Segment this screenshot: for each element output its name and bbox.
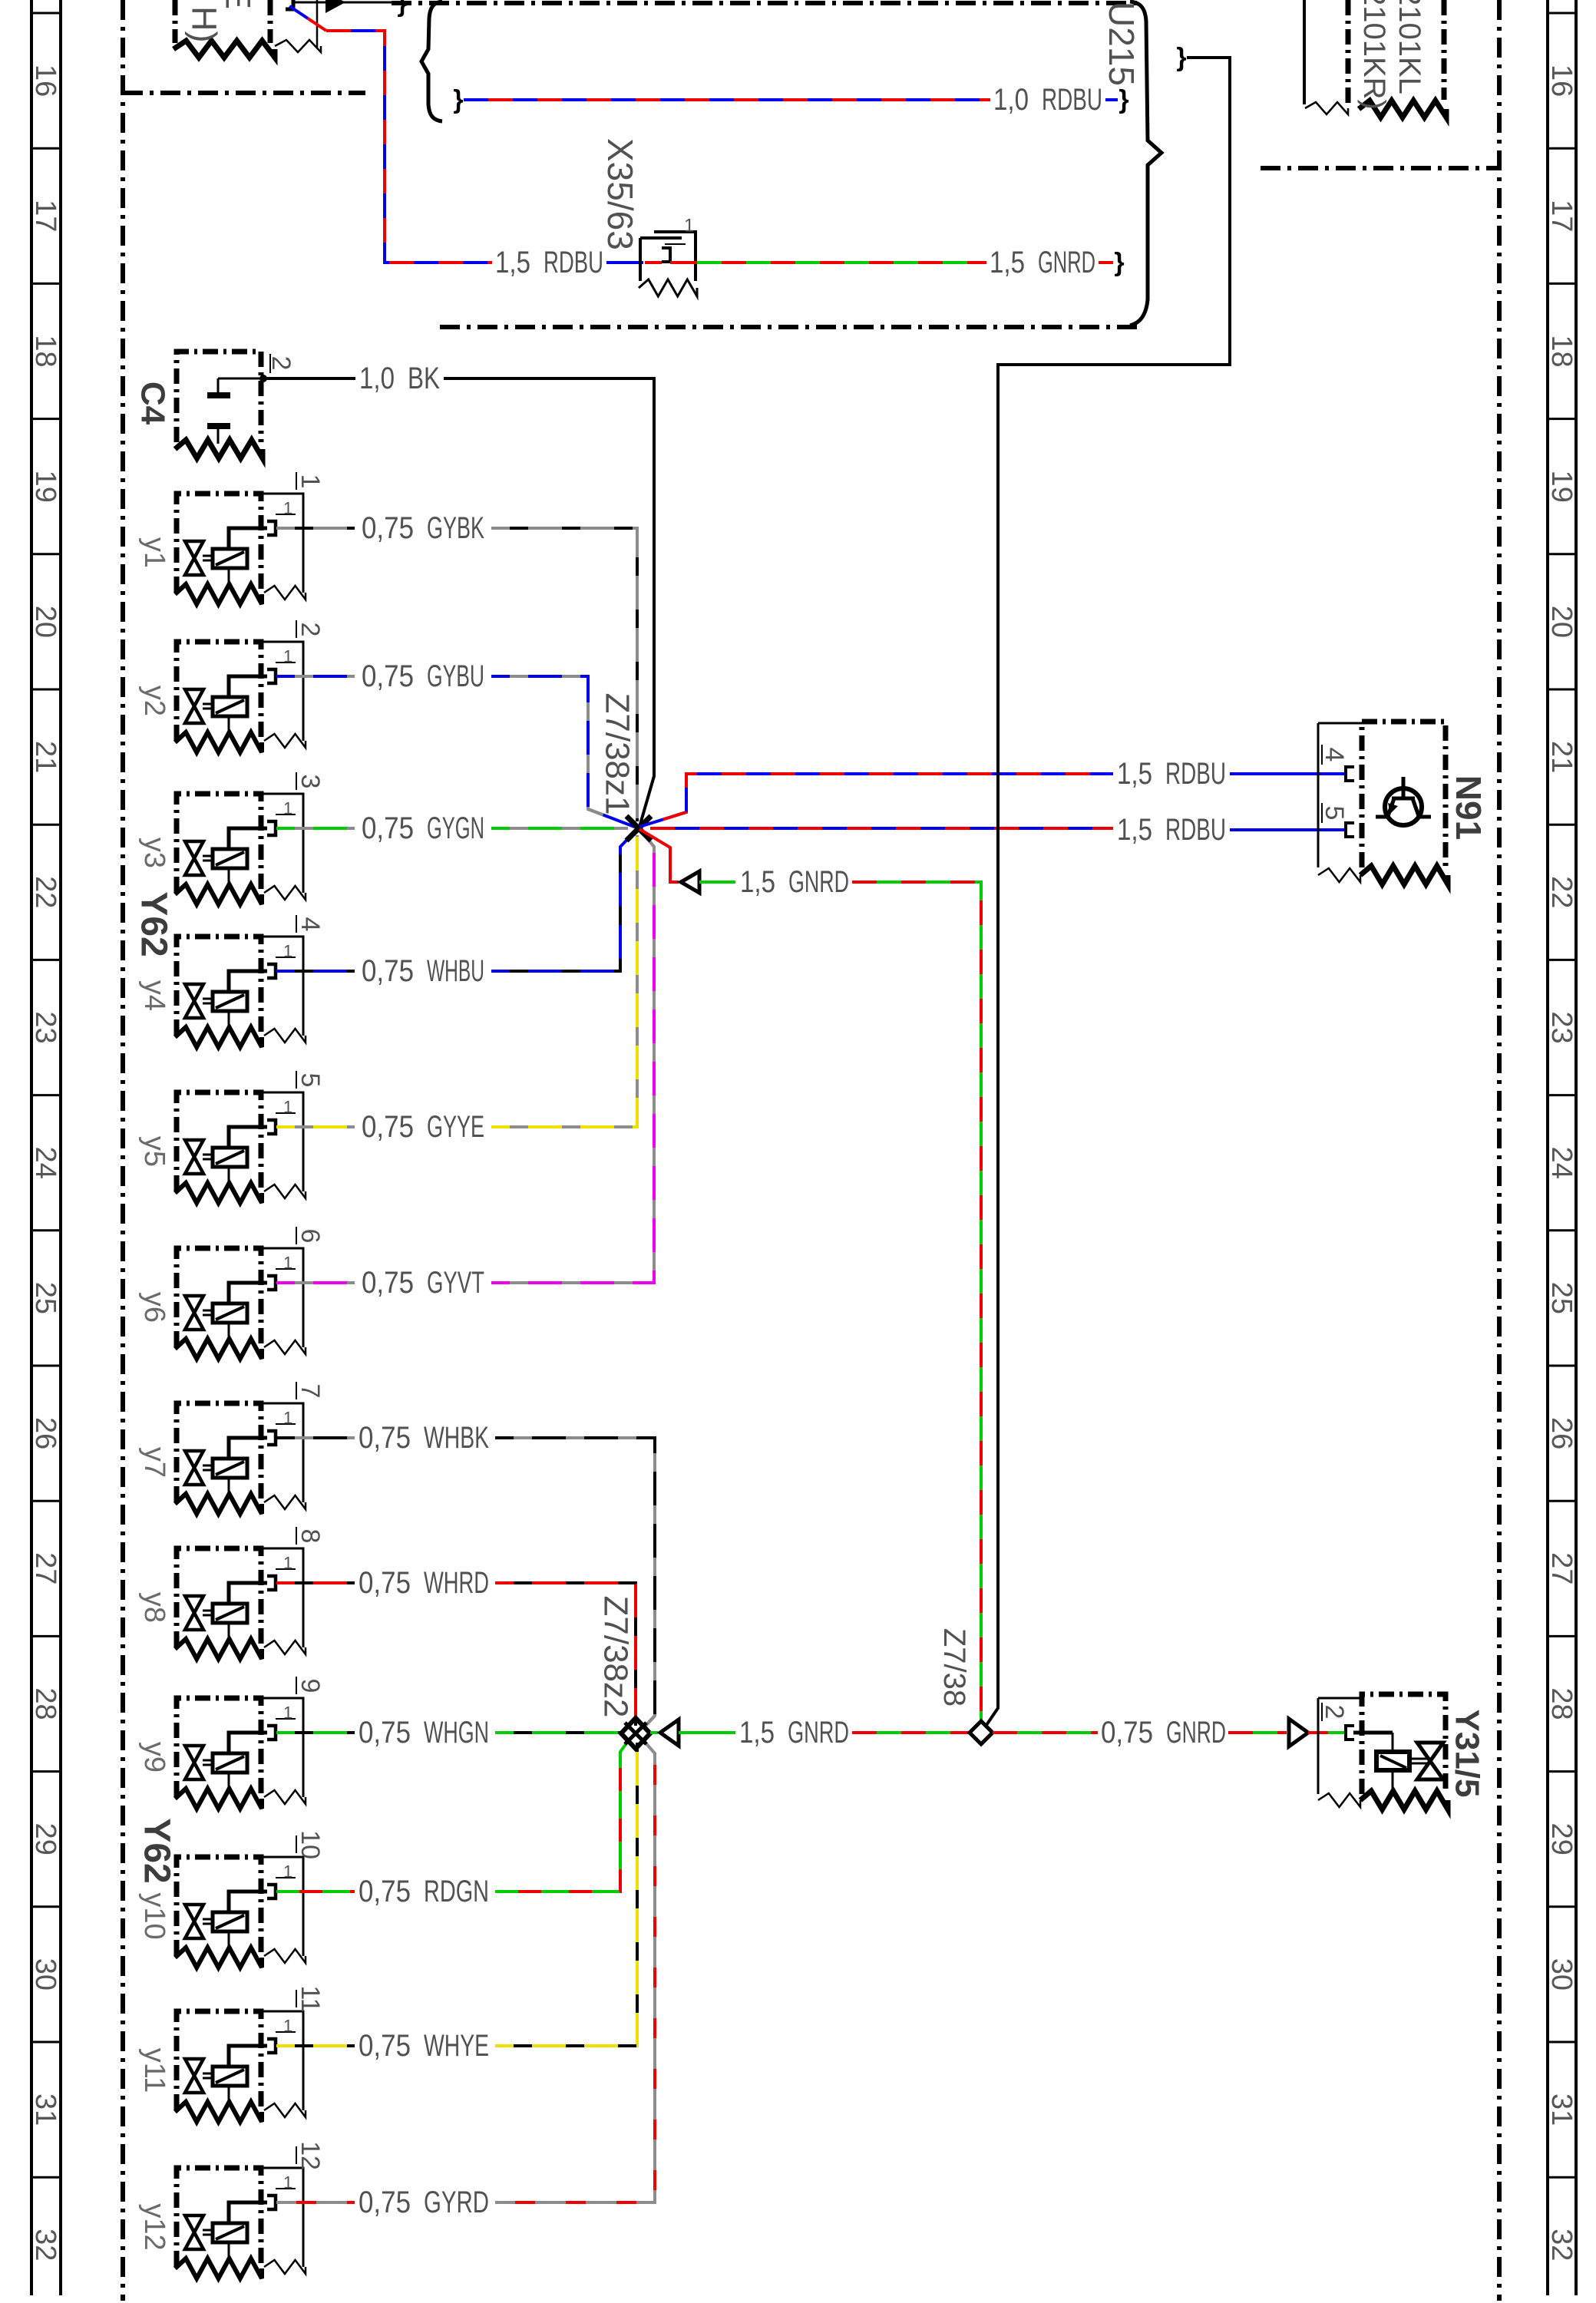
svg-text:U215: U215 bbox=[1102, 2, 1142, 86]
svg-text:1: 1 bbox=[296, 474, 325, 489]
svg-text:0,75: 0,75 bbox=[362, 1110, 414, 1144]
svg-text:21: 21 bbox=[29, 741, 61, 773]
svg-text:y6: y6 bbox=[138, 1292, 170, 1323]
svg-text:0,75: 0,75 bbox=[362, 811, 414, 845]
svg-text:17: 17 bbox=[1545, 200, 1578, 232]
svg-text:5: 5 bbox=[1320, 806, 1349, 821]
svg-text:GNRD: GNRD bbox=[788, 1716, 849, 1750]
svg-text:GYVT: GYVT bbox=[427, 1266, 484, 1300]
svg-text:24: 24 bbox=[1545, 1147, 1578, 1179]
svg-text:16: 16 bbox=[1545, 64, 1578, 97]
svg-text:2: 2 bbox=[1320, 1705, 1349, 1720]
svg-text:2: 2 bbox=[266, 356, 296, 371]
svg-text:23: 23 bbox=[1545, 1011, 1578, 1043]
svg-text:5: 5 bbox=[296, 1073, 325, 1088]
svg-text:6: 6 bbox=[296, 1229, 325, 1244]
svg-text:E: E bbox=[219, 0, 258, 9]
svg-text:RDBU: RDBU bbox=[544, 246, 603, 279]
svg-text:2101KR): 2101KR) bbox=[1357, 0, 1391, 110]
svg-text:Z7/38z1: Z7/38z1 bbox=[599, 693, 636, 815]
svg-text:0,75: 0,75 bbox=[362, 954, 414, 988]
svg-text:9: 9 bbox=[296, 1679, 325, 1693]
svg-text:0,75: 0,75 bbox=[362, 1266, 414, 1300]
svg-text:y2: y2 bbox=[138, 686, 170, 716]
svg-text:0,75: 0,75 bbox=[1101, 1716, 1153, 1750]
svg-text:1,5: 1,5 bbox=[1117, 813, 1152, 847]
svg-text:0,75: 0,75 bbox=[359, 2186, 411, 2219]
svg-text:GYBU: GYBU bbox=[427, 659, 484, 693]
svg-text:31: 31 bbox=[1545, 2093, 1578, 2126]
svg-text:3: 3 bbox=[296, 775, 325, 789]
svg-text:Y31/5: Y31/5 bbox=[1449, 1710, 1486, 1798]
svg-text:N91: N91 bbox=[1449, 775, 1489, 840]
svg-text:GYRD: GYRD bbox=[424, 2186, 489, 2219]
svg-text:29: 29 bbox=[1545, 1823, 1578, 1855]
svg-text:1,0: 1,0 bbox=[993, 83, 1029, 117]
svg-text:32: 32 bbox=[29, 2229, 61, 2261]
svg-text:30: 30 bbox=[1545, 1958, 1578, 1991]
svg-text:4: 4 bbox=[1320, 748, 1349, 762]
svg-text:}: } bbox=[453, 85, 463, 114]
svg-text:4: 4 bbox=[296, 917, 325, 932]
svg-text:}: } bbox=[1176, 43, 1186, 72]
svg-text:y8: y8 bbox=[138, 1592, 170, 1623]
svg-text:RDBU: RDBU bbox=[1165, 813, 1226, 847]
svg-text:0,75: 0,75 bbox=[359, 1716, 411, 1750]
svg-text:11: 11 bbox=[296, 1985, 325, 2012]
svg-text:RDGN: RDGN bbox=[424, 1875, 489, 1908]
svg-text:GNRD: GNRD bbox=[1038, 246, 1095, 279]
svg-text:C4: C4 bbox=[134, 382, 172, 425]
svg-text:RDBU: RDBU bbox=[1042, 83, 1102, 117]
svg-text:2101KL: 2101KL bbox=[1393, 0, 1426, 94]
svg-text:X35/63: X35/63 bbox=[600, 138, 640, 250]
svg-text:BK: BK bbox=[408, 362, 440, 395]
svg-text:y4: y4 bbox=[138, 980, 170, 1011]
svg-text:WHBU: WHBU bbox=[427, 954, 484, 988]
svg-text:0,75: 0,75 bbox=[362, 511, 414, 545]
svg-text:y12: y12 bbox=[138, 2203, 170, 2250]
svg-text:25: 25 bbox=[1545, 1282, 1578, 1314]
svg-text:GYBK: GYBK bbox=[427, 511, 484, 545]
svg-text:Y62: Y62 bbox=[137, 1818, 177, 1883]
svg-text:y1: y1 bbox=[138, 537, 170, 568]
svg-text:y10: y10 bbox=[138, 1892, 170, 1939]
svg-text:22: 22 bbox=[1545, 876, 1578, 908]
svg-text:30: 30 bbox=[29, 1958, 61, 1991]
svg-text:19: 19 bbox=[29, 471, 61, 503]
svg-text:19: 19 bbox=[1545, 471, 1578, 503]
svg-text:1,0: 1,0 bbox=[359, 362, 395, 395]
svg-text:GYYE: GYYE bbox=[427, 1110, 484, 1144]
svg-text:18: 18 bbox=[29, 335, 61, 367]
svg-text:H): H) bbox=[185, 6, 224, 42]
svg-text:Z7/38z2: Z7/38z2 bbox=[597, 1596, 635, 1718]
svg-text:1,5: 1,5 bbox=[1117, 757, 1152, 791]
svg-text:27: 27 bbox=[29, 1552, 61, 1584]
svg-text:WHRD: WHRD bbox=[424, 1566, 489, 1600]
svg-text:17: 17 bbox=[29, 200, 61, 232]
svg-text:21: 21 bbox=[1545, 741, 1578, 773]
svg-text:Y62: Y62 bbox=[134, 891, 174, 957]
svg-text:10: 10 bbox=[296, 1830, 325, 1859]
svg-text:0,75: 0,75 bbox=[359, 1566, 411, 1600]
svg-text:WHYE: WHYE bbox=[424, 2029, 489, 2063]
svg-text:y7: y7 bbox=[138, 1447, 170, 1478]
svg-text:28: 28 bbox=[29, 1687, 61, 1720]
svg-text:1: 1 bbox=[684, 216, 694, 236]
svg-text:16: 16 bbox=[29, 64, 61, 97]
svg-text:27: 27 bbox=[1545, 1552, 1578, 1584]
svg-text:WHGN: WHGN bbox=[424, 1716, 489, 1750]
svg-text:1,5: 1,5 bbox=[990, 246, 1025, 279]
svg-text:18: 18 bbox=[1545, 335, 1578, 367]
svg-text:y5: y5 bbox=[138, 1136, 170, 1167]
svg-text:24: 24 bbox=[29, 1147, 61, 1179]
svg-text:}: } bbox=[1119, 85, 1128, 114]
svg-text:26: 26 bbox=[29, 1417, 61, 1449]
svg-text:RDBU: RDBU bbox=[1165, 757, 1226, 791]
svg-text:8: 8 bbox=[296, 1529, 325, 1544]
svg-text:y11: y11 bbox=[138, 2048, 170, 2093]
svg-text:0,75: 0,75 bbox=[359, 1421, 411, 1455]
svg-text:GNRD: GNRD bbox=[788, 865, 849, 899]
svg-text:Z7/38: Z7/38 bbox=[937, 1628, 971, 1707]
svg-text:0,75: 0,75 bbox=[362, 659, 414, 693]
svg-text:1,5: 1,5 bbox=[495, 246, 530, 279]
svg-text:22: 22 bbox=[29, 876, 61, 908]
svg-text:32: 32 bbox=[1545, 2229, 1578, 2261]
svg-text:25: 25 bbox=[29, 1282, 61, 1314]
svg-text:y9: y9 bbox=[138, 1742, 170, 1773]
svg-text:28: 28 bbox=[1545, 1687, 1578, 1720]
svg-text:0,75: 0,75 bbox=[359, 1875, 411, 1908]
svg-text:0,75: 0,75 bbox=[359, 2029, 411, 2063]
svg-text:20: 20 bbox=[29, 606, 61, 638]
svg-text:1,5: 1,5 bbox=[740, 865, 775, 899]
svg-text:26: 26 bbox=[1545, 1417, 1578, 1449]
svg-text:GYGN: GYGN bbox=[427, 811, 484, 845]
svg-text:WHBK: WHBK bbox=[424, 1421, 489, 1455]
svg-text:2: 2 bbox=[296, 623, 325, 637]
svg-text:20: 20 bbox=[1545, 606, 1578, 638]
svg-text:1,5: 1,5 bbox=[739, 1716, 775, 1750]
svg-text:23: 23 bbox=[29, 1011, 61, 1043]
svg-text:}: } bbox=[397, 0, 407, 18]
svg-text:GNRD: GNRD bbox=[1166, 1716, 1226, 1750]
svg-text:7: 7 bbox=[296, 1384, 325, 1399]
svg-text:y3: y3 bbox=[138, 838, 170, 868]
svg-text:29: 29 bbox=[29, 1823, 61, 1855]
svg-text:}: } bbox=[1114, 248, 1124, 277]
svg-text:12: 12 bbox=[296, 2141, 325, 2170]
svg-text:31: 31 bbox=[29, 2093, 61, 2126]
